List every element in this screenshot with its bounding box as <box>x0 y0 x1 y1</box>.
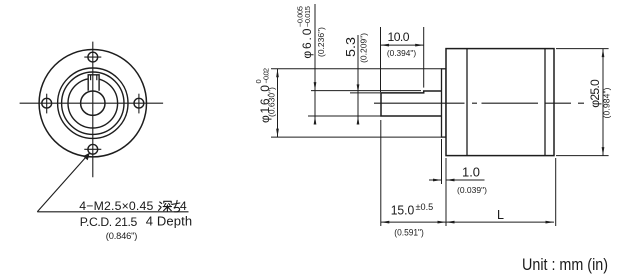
leader underline <box>37 211 188 213</box>
label phi6.0 tolerance <box>296 6 315 59</box>
phi6 arrow down <box>314 82 317 91</box>
svg-text:(0.591"): (0.591") <box>394 227 424 237</box>
svg-text:φ25.0: φ25.0 <box>588 79 602 108</box>
boss rect <box>442 69 447 137</box>
label phi16.0 tolerance <box>254 68 272 123</box>
svg-text:10.0: 10.0 <box>388 30 410 44</box>
15.0 arrow left <box>381 221 390 224</box>
phi16 arrow up <box>276 69 279 78</box>
leader arrowhead <box>83 153 90 161</box>
slot inner stub right <box>96 75 98 80</box>
L dim line <box>446 221 554 223</box>
svg-text:(0.984"): (0.984") <box>601 87 611 118</box>
hole top tick <box>84 56 101 58</box>
1.0 arrow into boss left <box>433 179 442 182</box>
shaft circle <box>81 91 105 115</box>
phi16 ext top <box>271 68 442 70</box>
shaft outline <box>381 91 443 116</box>
body inner line right <box>544 49 546 156</box>
svg-text:(0.039"): (0.039") <box>457 185 487 195</box>
5.3 arrow up <box>357 116 360 125</box>
phi16 arrow down <box>276 129 279 138</box>
svg-text:(0.209"): (0.209") <box>359 33 369 63</box>
body rect <box>446 49 554 156</box>
15.0 dim line <box>381 221 446 223</box>
svg-text:(0.846"): (0.846") <box>106 231 138 241</box>
svg-text:4 Depth: 4 Depth <box>146 214 192 229</box>
slot inner stub left <box>90 75 92 80</box>
body left ext <box>445 158 447 226</box>
phi25 arrow down <box>602 147 605 156</box>
label fukasa (CJK deep) <box>159 200 180 211</box>
svg-text:(0.630"): (0.630") <box>267 87 277 117</box>
L ext right <box>555 158 557 226</box>
centerline side view <box>374 102 584 104</box>
phi6 dim line <box>314 4 316 123</box>
svg-text:(0.236"): (0.236") <box>316 27 326 57</box>
phi16 dim line <box>277 69 279 137</box>
svg-text:φ6.0: φ6.0 <box>300 28 314 58</box>
10.0 dim line <box>381 44 424 46</box>
svg-text:5.3: 5.3 <box>344 37 358 57</box>
flange outer circle <box>39 49 146 156</box>
boss circle phi16 <box>58 68 128 138</box>
hole left <box>42 98 52 108</box>
svg-text:(0.394"): (0.394") <box>387 48 416 58</box>
15.0 ext left <box>380 120 382 226</box>
svg-text:1.0: 1.0 <box>462 166 480 180</box>
hole right tick <box>138 94 140 114</box>
1.0 arrow at body left <box>446 179 455 182</box>
slot mask <box>88 74 100 92</box>
phi25 ext top <box>556 48 609 50</box>
1.0 leader right <box>446 179 485 181</box>
phi16 ext bottom <box>271 136 442 138</box>
svg-text:Unit : mm (in): Unit : mm (in) <box>522 255 608 274</box>
L arrow right <box>546 221 555 224</box>
10.0 ext right <box>423 27 425 88</box>
body inner line left <box>466 49 468 156</box>
1.0 leader tail left <box>429 179 442 181</box>
svg-text:±0.5: ±0.5 <box>416 202 434 212</box>
10.0 ext left <box>380 27 382 92</box>
horizontal centerline <box>20 102 164 104</box>
10.0 arrow left <box>381 44 390 47</box>
5.3 ext top <box>350 92 381 94</box>
L arrow left <box>446 221 455 224</box>
slot outline <box>88 75 99 91</box>
hole top <box>88 52 98 62</box>
svg-text:15.0: 15.0 <box>391 204 415 218</box>
shaft bottom ext <box>308 115 381 117</box>
svg-text:L: L <box>497 208 504 222</box>
phi6 arrow up <box>314 116 317 125</box>
svg-text:4: 4 <box>180 199 187 213</box>
hole right <box>134 98 144 108</box>
phi25 ext bottom <box>556 155 609 157</box>
hole bottom tick <box>84 148 101 150</box>
svg-text:P.C.D. 21.5: P.C.D. 21.5 <box>80 215 138 229</box>
15.0 arrow right <box>438 221 447 224</box>
10.0 arrow right <box>415 44 424 47</box>
svg-text:−0.015: −0.015 <box>303 6 312 27</box>
5.3 dim line <box>357 35 359 123</box>
phi6 ext top <box>311 90 421 92</box>
phi25 dim line <box>602 49 604 156</box>
vertical centerline <box>92 42 94 178</box>
5.3 arrow down <box>357 84 360 93</box>
svg-text:−0.02: −0.02 <box>261 68 270 84</box>
leader line to hole <box>37 153 90 212</box>
hole bottom <box>88 144 98 154</box>
1.0 ext boss left <box>441 139 443 184</box>
hole left tick <box>46 94 48 114</box>
phi25 arrow up <box>602 49 605 58</box>
svg-text:4−M2.5×0.45: 4−M2.5×0.45 <box>79 199 153 213</box>
ring outer circle <box>62 72 124 134</box>
ring inner circle <box>68 78 118 128</box>
